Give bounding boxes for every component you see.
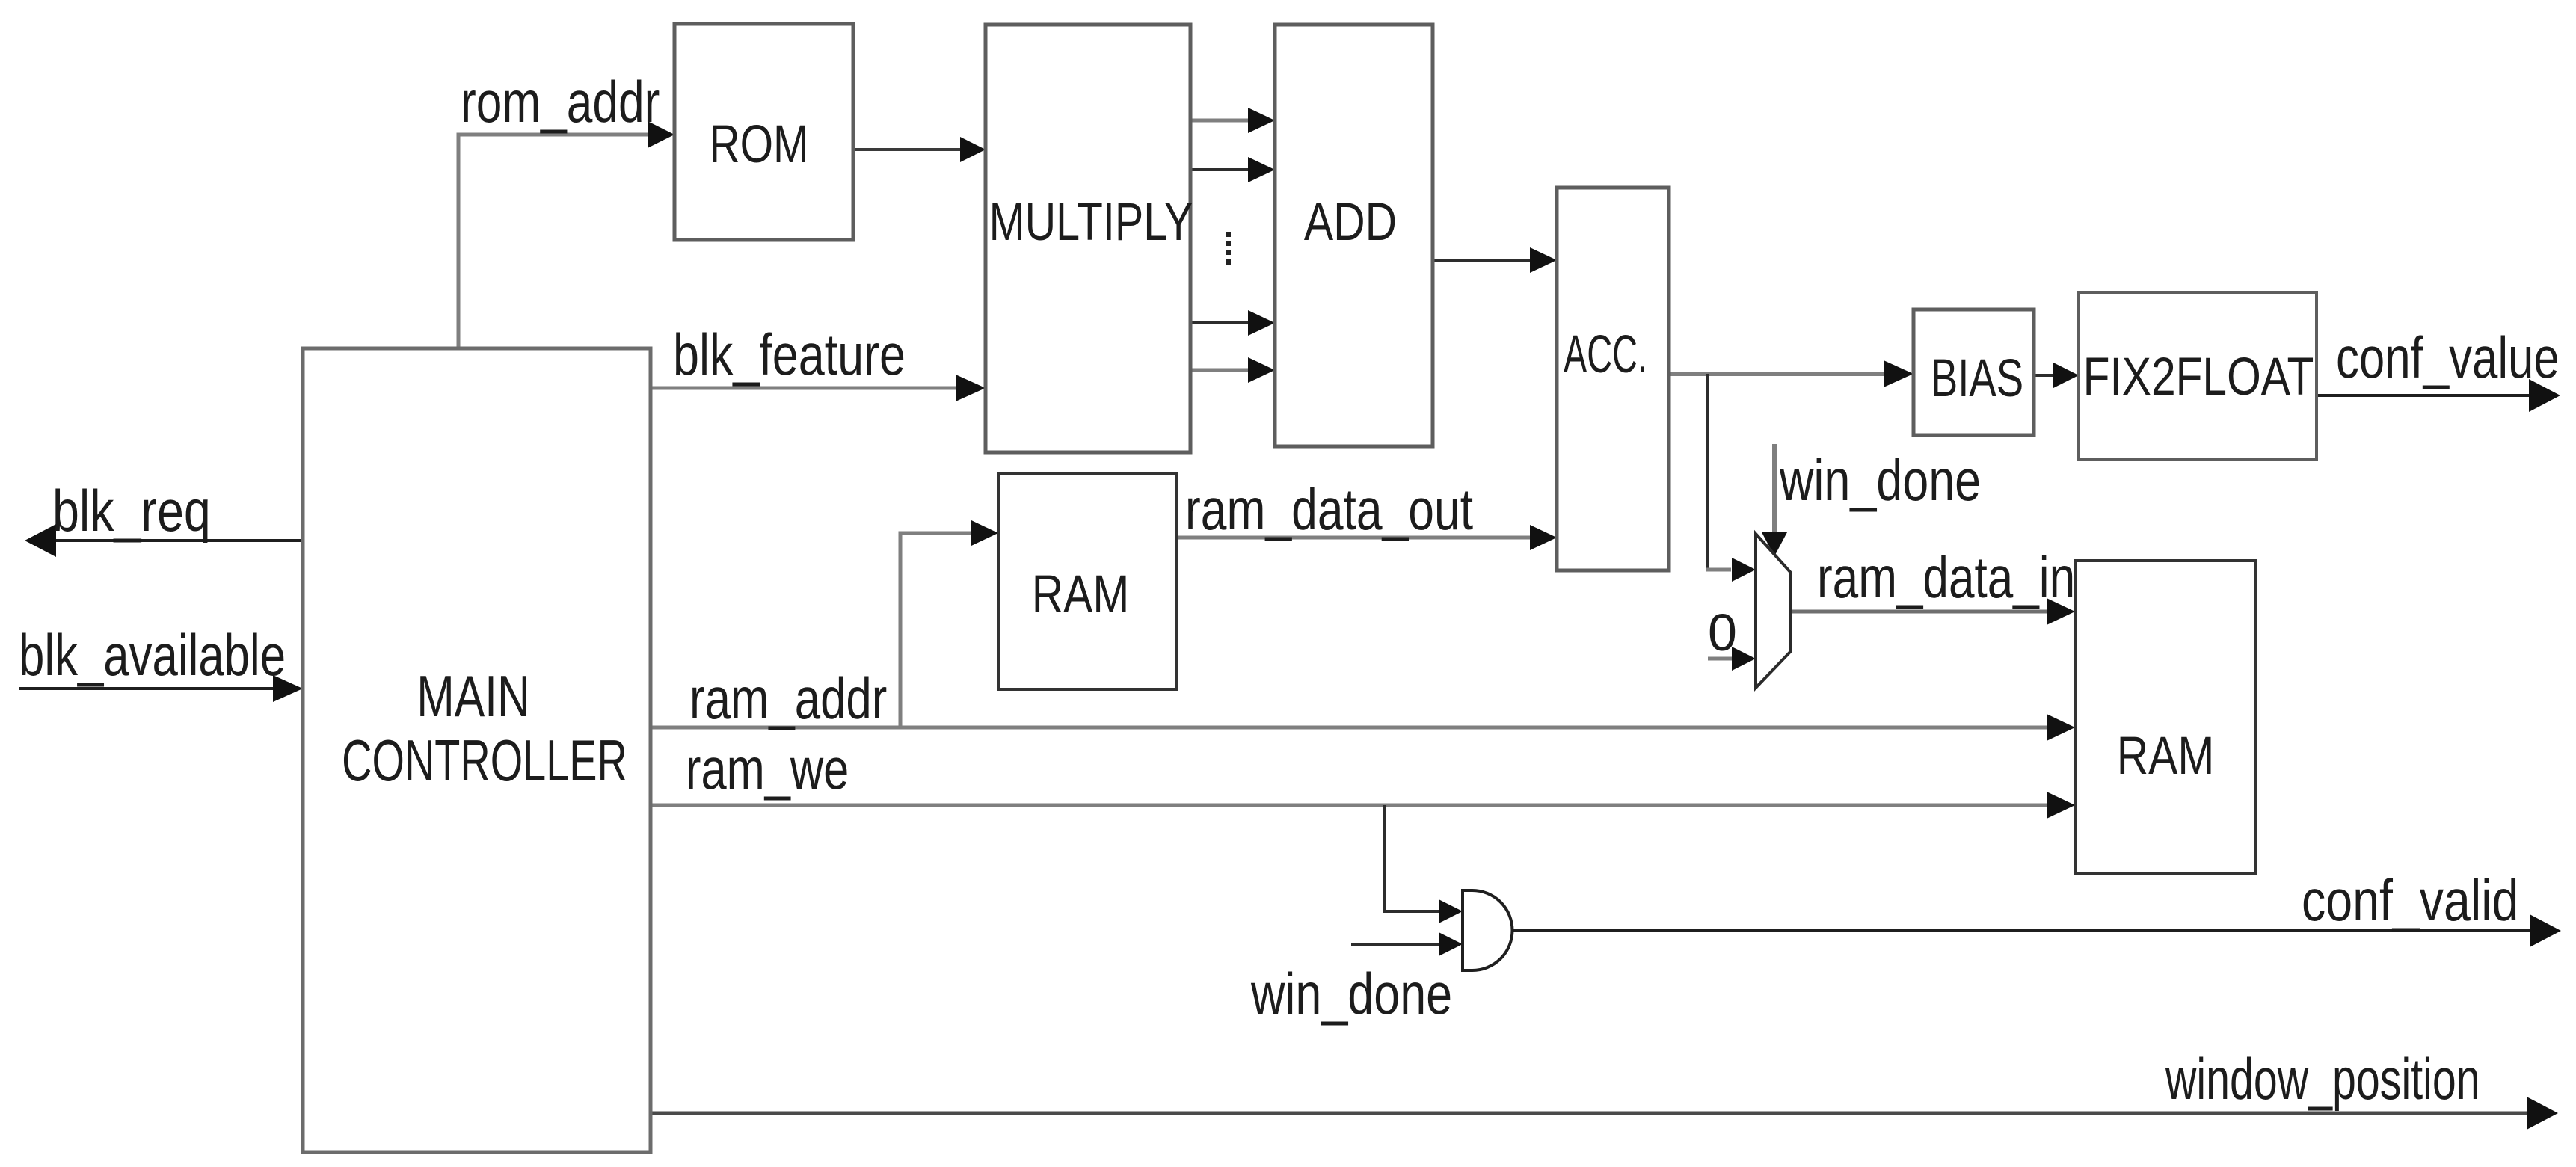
- svg-text:MULTIPLY: MULTIPLY: [989, 192, 1193, 251]
- svg-text:RAM: RAM: [2117, 726, 2215, 786]
- svg-text:conf_value: conf_value: [2336, 324, 2560, 390]
- svg-text:MAIN: MAIN: [416, 664, 529, 729]
- svg-text:blk_req: blk_req: [52, 478, 211, 544]
- svg-text:CONTROLLER: CONTROLLER: [342, 729, 627, 793]
- svg-text:0: 0: [1708, 603, 1737, 662]
- svg-text:ADD: ADD: [1304, 192, 1397, 251]
- svg-text:ram_data_out: ram_data_out: [1185, 476, 1473, 541]
- svg-text:win_done: win_done: [1779, 449, 1981, 514]
- svg-text:rom_addr: rom_addr: [461, 69, 660, 134]
- svg-text:blk_feature: blk_feature: [673, 323, 906, 388]
- svg-text:blk_available: blk_available: [19, 622, 286, 688]
- svg-text:RAM: RAM: [1032, 564, 1130, 624]
- svg-text:ACC.: ACC.: [1564, 324, 1647, 384]
- svg-text:conf_valid: conf_valid: [2302, 868, 2518, 933]
- svg-text:win_done: win_done: [1250, 962, 1452, 1027]
- svg-text:ram_addr: ram_addr: [689, 665, 887, 731]
- svg-text:BIAS: BIAS: [1931, 349, 2023, 408]
- svg-text:FIX2FLOAT: FIX2FLOAT: [2083, 347, 2314, 407]
- svg-text:ROM: ROM: [709, 114, 808, 173]
- svg-text:ram_data_in: ram_data_in: [1817, 544, 2075, 609]
- svg-text:window_position: window_position: [2165, 1046, 2480, 1112]
- svg-text:ram_we: ram_we: [686, 736, 849, 801]
